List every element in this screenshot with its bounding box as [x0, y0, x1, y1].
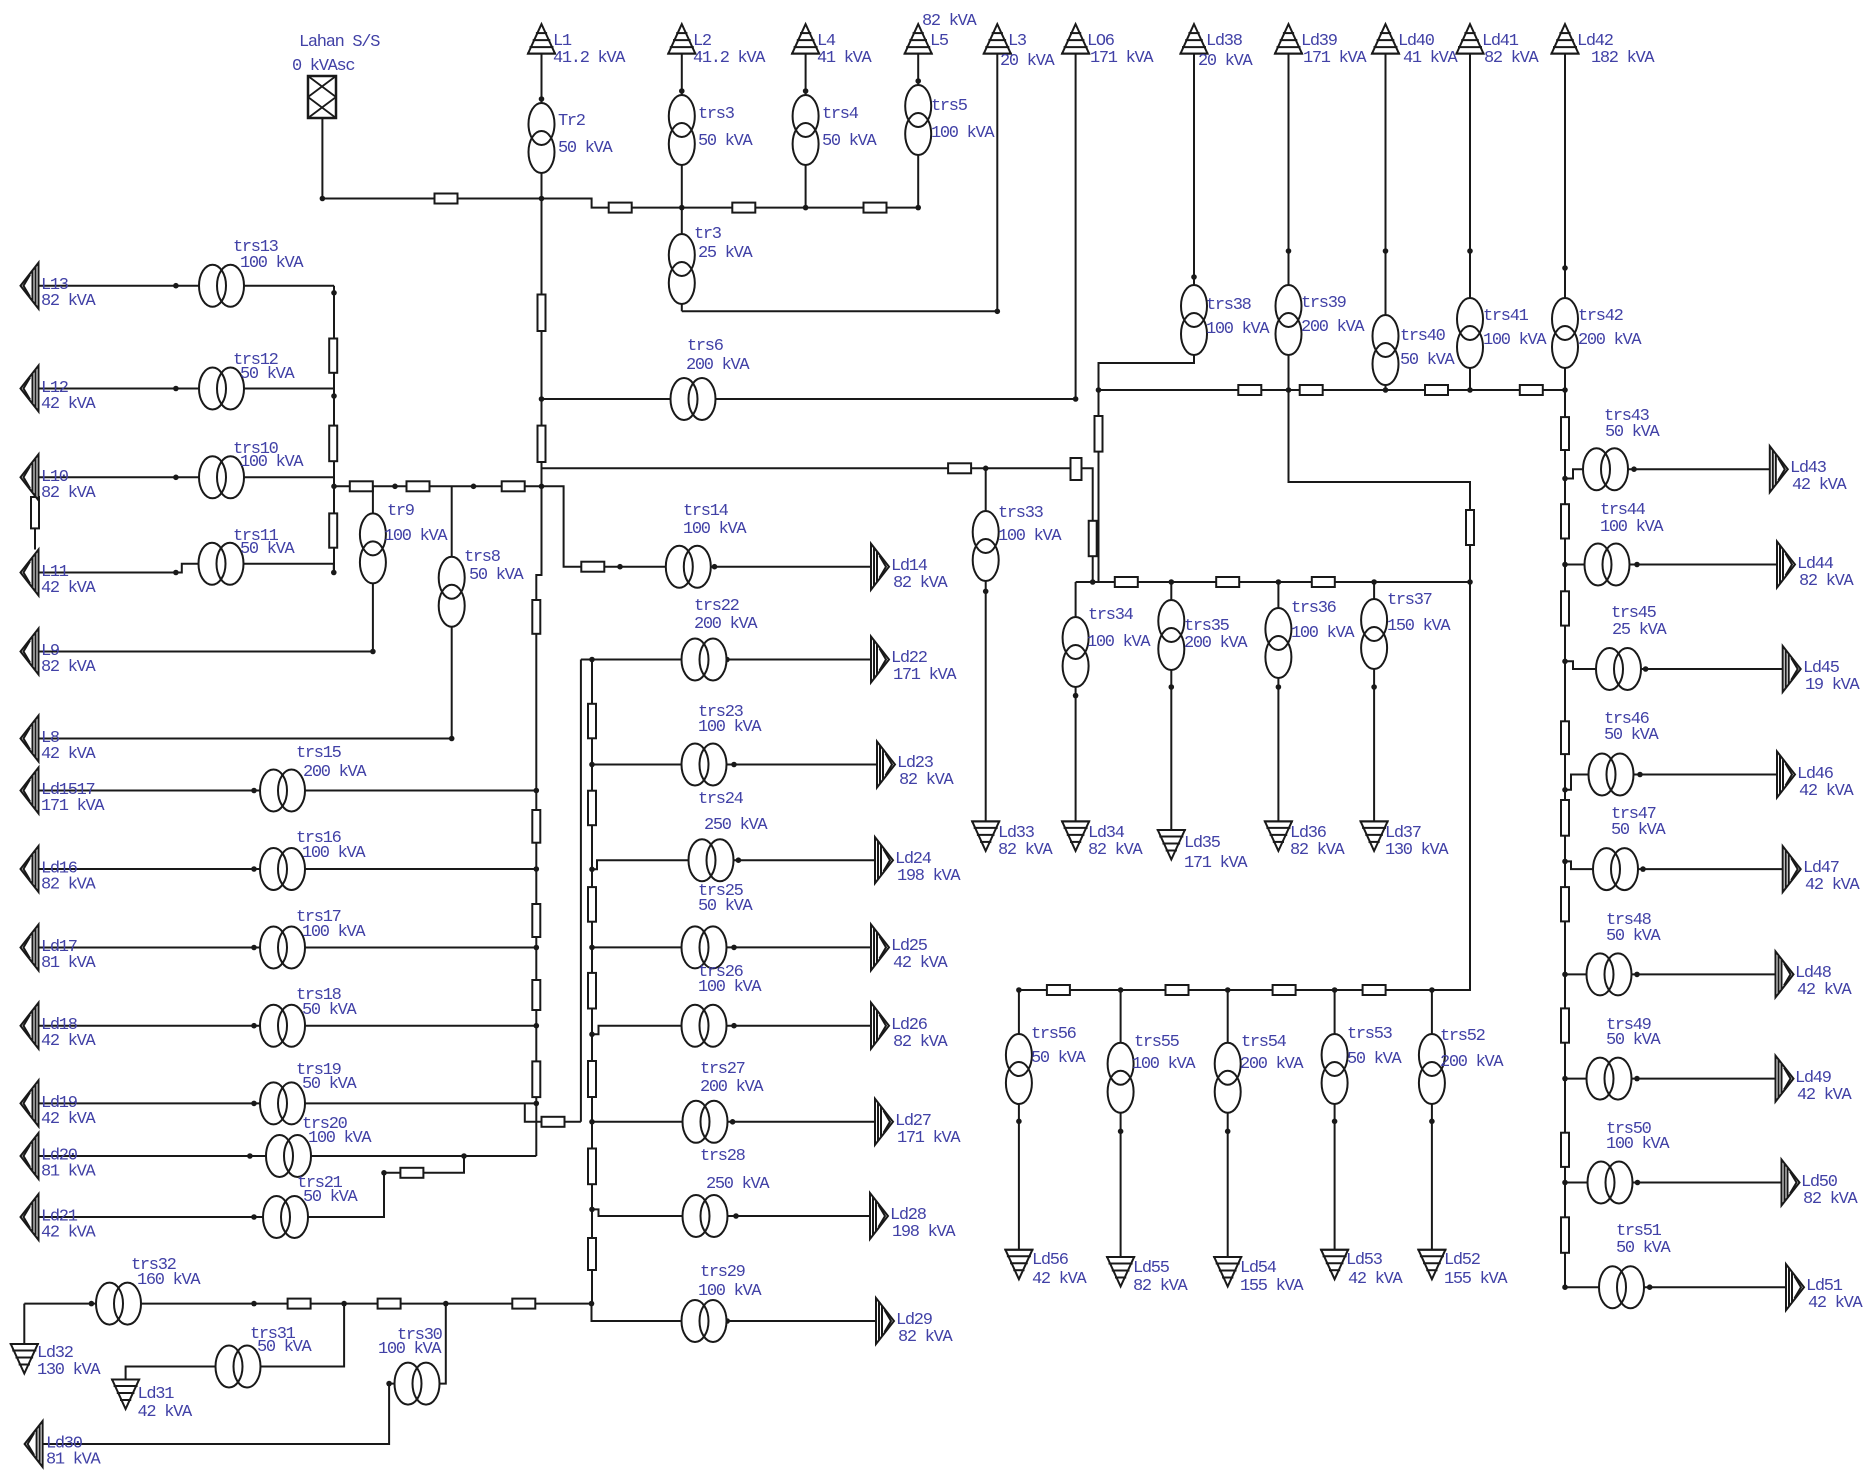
junction trs16 at trunk [534, 866, 540, 872]
cable rect right trunk b [1561, 504, 1569, 538]
junction trs14 row left [617, 564, 623, 570]
svg-text:100 kVA: 100 kVA [698, 1282, 762, 1301]
junction trs44 at trunk [1562, 562, 1568, 568]
load Ld56 [1004, 1250, 1033, 1280]
cable rect right trunk f [1561, 887, 1569, 921]
svg-text:82 kVA: 82 kVA [41, 292, 97, 311]
svg-text:50 kVA: 50 kVA [1400, 351, 1456, 370]
transformer trs49 [1587, 1058, 1632, 1100]
junction trs28 at vertical [589, 1207, 595, 1213]
junction trs14 right [712, 564, 718, 570]
svg-text:42 kVA: 42 kVA [138, 1403, 194, 1422]
svg-text:50 kVA: 50 kVA [240, 365, 296, 384]
svg-text:100 kVA: 100 kVA [931, 124, 995, 143]
svg-text:trs39: trs39 [1301, 294, 1347, 313]
junction Ld21 row [251, 1214, 257, 1220]
svg-text:171 kVA: 171 kVA [897, 1129, 961, 1148]
cable rect trs34 bus c [1312, 577, 1335, 587]
cable rect mid bus a [1238, 385, 1261, 395]
wire mid bus [1099, 389, 1566, 391]
svg-text:100 kVA: 100 kVA [302, 844, 366, 863]
transformer trs21 [263, 1196, 308, 1238]
svg-text:42 kVA: 42 kVA [1805, 876, 1861, 895]
wire Ld32 drop [23, 1304, 25, 1344]
svg-text:42 kVA: 42 kVA [41, 745, 97, 764]
load Ld53 [1320, 1250, 1349, 1280]
cable rect L10-L11 link [31, 497, 39, 528]
load Ld20 [21, 1133, 39, 1179]
junction L1 trafo top [539, 96, 545, 102]
junction trs22 right [724, 657, 730, 663]
load Ld36 [1264, 821, 1293, 851]
svg-text:50 kVA: 50 kVA [822, 132, 878, 151]
junction L2 trafo top [679, 88, 685, 94]
svg-text:trs54: trs54 [1241, 1033, 1287, 1052]
cable rect mid bus d [1520, 385, 1543, 395]
svg-text:trs56: trs56 [1031, 1025, 1077, 1044]
load LO6 [1061, 24, 1090, 53]
junction trs54 at bus52 [1225, 987, 1231, 993]
wire mid row 486 [334, 485, 542, 487]
wire L5-trs5 column [917, 54, 919, 208]
svg-text:100 kVA: 100 kVA [308, 1129, 372, 1148]
svg-text:155 kVA: 155 kVA [1444, 1270, 1508, 1289]
transformer trs29 [682, 1300, 727, 1342]
junction trs13 at trunk [331, 290, 337, 296]
svg-text:50 kVA: 50 kVA [302, 1001, 358, 1020]
junction trs43 at trunk [1562, 476, 1568, 482]
junction Tr2 at bus [539, 196, 545, 202]
cable rect top bus r1 [609, 203, 632, 213]
wire LO6 column [1075, 54, 1077, 399]
svg-text:42 kVA: 42 kVA [1792, 476, 1848, 495]
svg-text:171 kVA: 171 kVA [41, 797, 105, 816]
svg-text:50 kVA: 50 kVA [1605, 423, 1661, 442]
junction trs11 row [173, 570, 179, 576]
svg-text:50 kVA: 50 kVA [469, 566, 525, 585]
junction trs24 right [736, 857, 742, 863]
svg-text:200 kVA: 200 kVA [700, 1078, 764, 1097]
svg-text:20 kVA: 20 kVA [1198, 52, 1254, 71]
load Ld30 [25, 1421, 43, 1467]
wire trs44 row [1565, 564, 1777, 566]
junction trs5 at bus [915, 205, 921, 211]
svg-text:171 kVA: 171 kVA [893, 666, 957, 685]
svg-text:50 kVA: 50 kVA [1606, 927, 1662, 946]
wire trs46 row [1565, 775, 1777, 790]
cable rect right trunk a [1561, 417, 1569, 450]
junction trs23 at vertical [589, 762, 595, 768]
transformer trs22 [682, 639, 727, 681]
wire trs36 column [1277, 582, 1279, 821]
svg-text:42 kVA: 42 kVA [893, 954, 949, 973]
junction trs53 at bus52 [1332, 987, 1338, 993]
transformer trs27 [683, 1101, 728, 1143]
transformer trs40 [1373, 315, 1399, 385]
svg-text:42 kVA: 42 kVA [1348, 1270, 1404, 1289]
cable rect right vertical 592 d [588, 973, 596, 1009]
wire trs34 bus [1076, 581, 1470, 583]
svg-text:42 kVA: 42 kVA [41, 395, 97, 414]
load Ld54 [1213, 1257, 1242, 1287]
svg-text:Ld31: Ld31 [138, 1385, 175, 1404]
svg-text:trs41: trs41 [1483, 307, 1529, 326]
junction trs10 row [173, 475, 179, 481]
transformer trs31 [216, 1346, 261, 1388]
svg-text:100 kVA: 100 kVA [1132, 1055, 1196, 1074]
load L9 [21, 629, 39, 675]
svg-text:82 kVA: 82 kVA [998, 841, 1054, 860]
cable rect right vertical 592 c [588, 887, 596, 922]
svg-text:160 kVA: 160 kVA [137, 1271, 201, 1290]
load L13 [21, 263, 39, 309]
transformer tr9 [360, 513, 386, 583]
transformer trs10 [199, 456, 244, 498]
svg-text:100 kVA: 100 kVA [378, 1340, 442, 1359]
load Ld29 [876, 1298, 894, 1344]
cable rect trs19 link [542, 1117, 565, 1127]
junction trs50 right [1635, 1180, 1641, 1186]
wire trs32 row [24, 1303, 591, 1305]
cable rect mid bus c [1425, 385, 1448, 395]
junction Ld16 row [251, 866, 257, 872]
wire trs50 row [1565, 1182, 1782, 1184]
transformer trs47 [1593, 848, 1638, 890]
wire trs30 to Ld30 [43, 1384, 394, 1444]
svg-text:trs5: trs5 [931, 97, 968, 116]
load Ld24 [875, 837, 893, 883]
load Ld49 [1776, 1056, 1794, 1102]
transformer trs15 [260, 770, 305, 812]
junction trs46 right [1637, 772, 1643, 778]
load Ld27 [875, 1099, 893, 1145]
junction Ld17 row [251, 945, 257, 951]
junction trs33 tap [983, 466, 989, 472]
junction trs26 at vertical [589, 1032, 595, 1038]
svg-text:82 kVA: 82 kVA [1484, 49, 1540, 68]
cable rect right trunk e [1561, 800, 1569, 836]
cable rect right vertical 592 f [588, 1149, 596, 1185]
svg-text:200 kVA: 200 kVA [1301, 318, 1365, 337]
wire trs29 row [592, 1304, 877, 1321]
transformer trs55 [1108, 1043, 1134, 1113]
junction trs22 at left vertical [589, 657, 595, 663]
svg-text:50 kVA: 50 kVA [1031, 1049, 1087, 1068]
svg-text:81 kVA: 81 kVA [41, 1163, 97, 1182]
junction mid row dot b [471, 484, 477, 490]
svg-text:trs34: trs34 [1088, 606, 1134, 625]
wire Lahan S/S drop [321, 118, 323, 199]
cable rect trunk c [532, 600, 540, 634]
cable rect vert1098 [1095, 416, 1103, 452]
load Ld31 [111, 1380, 140, 1410]
junction trs34 bottom [1073, 693, 1079, 699]
load Ld42 [1551, 24, 1580, 53]
load Ld33 [971, 821, 1000, 851]
load Ld55 [1106, 1257, 1135, 1287]
junction trs38 at mid bus [1096, 387, 1102, 393]
wire Ld42-trs42 column [1564, 54, 1566, 390]
wire trs19 to left vertical link [525, 1103, 581, 1121]
svg-text:trs27: trs27 [700, 1060, 745, 1079]
svg-text:tr9: tr9 [387, 502, 415, 521]
svg-text:50 kVA: 50 kVA [698, 897, 754, 916]
junction trs4 at bus [803, 205, 809, 211]
svg-text:250 kVA: 250 kVA [706, 1175, 770, 1194]
cable rect trunk f [532, 980, 540, 1010]
wire Ld1517 row [39, 790, 537, 792]
svg-text:200 kVA: 200 kVA [303, 763, 367, 782]
svg-text:82 kVA: 82 kVA [899, 771, 955, 790]
svg-text:171 kVA: 171 kVA [1184, 854, 1248, 873]
svg-text:42 kVA: 42 kVA [41, 1110, 97, 1129]
wire L3 column [996, 54, 998, 312]
svg-text:100 kVA: 100 kVA [1600, 518, 1664, 537]
transformer trs3 [669, 95, 695, 165]
wire Ld18 row [39, 1025, 537, 1027]
load Ld32 [10, 1344, 39, 1374]
svg-text:200 kVA: 200 kVA [686, 356, 750, 375]
load Ld25 [871, 924, 889, 970]
svg-text:171 kVA: 171 kVA [1303, 49, 1367, 68]
junction trs47 right [1640, 866, 1646, 872]
transformer trs26 [682, 1005, 727, 1047]
svg-text:82 kVA: 82 kVA [1290, 841, 1346, 860]
load Ld14 [871, 544, 889, 590]
load Ld52 [1417, 1250, 1446, 1280]
load Ld38 [1180, 24, 1209, 53]
svg-text:82 kVA: 82 kVA [1133, 1277, 1189, 1296]
svg-text:82 kVA: 82 kVA [893, 574, 949, 593]
cable rect right trunk h [1561, 1133, 1569, 1167]
load Ld43 [1770, 446, 1788, 492]
transformer trs19 [260, 1082, 305, 1124]
cable rect trs34 bus a [1115, 577, 1138, 587]
junction trs24 at vertical [589, 867, 595, 873]
junction trs37 at bus [1371, 579, 1377, 585]
wire trs11 row [39, 564, 334, 573]
wire Ld16 row [39, 868, 537, 870]
wire L9 row [39, 651, 373, 653]
wire trs24 row [592, 860, 875, 869]
wire trs30 riser [440, 1304, 446, 1384]
wire right trunk [1564, 390, 1566, 1287]
wire trs37 column [1373, 582, 1375, 821]
cable rect trs32 row b [378, 1299, 401, 1309]
junction trs15 at trunk [534, 788, 540, 794]
svg-text:42 kVA: 42 kVA [1797, 981, 1853, 1000]
svg-text:82 kVA: 82 kVA [1799, 572, 1855, 591]
load L10 [21, 454, 39, 500]
junction trs6 at LO6 [1073, 396, 1079, 402]
wire Ld39-trs39 column [1288, 54, 1290, 390]
cable rect top bus left [435, 194, 458, 204]
svg-text:81 kVA: 81 kVA [41, 954, 97, 973]
junction trs12 row [173, 386, 179, 392]
junction trs48 right [1634, 972, 1640, 978]
load Ld26 [871, 1003, 889, 1049]
junction trs49 right [1634, 1076, 1640, 1082]
junction trs29 at vertical [589, 1301, 595, 1307]
svg-text:81 kVA: 81 kVA [46, 1451, 102, 1470]
junction feeder at trs34 bus [1090, 579, 1096, 585]
wire L2-trs3-tr3 column [681, 54, 683, 312]
cable rect mid row a [350, 481, 373, 491]
wire trs34 column [1075, 582, 1077, 821]
svg-text:182 kVA: 182 kVA [1591, 49, 1655, 68]
svg-text:100 kVA: 100 kVA [698, 718, 762, 737]
cable rect right trunk g [1561, 1008, 1569, 1042]
junction trs54 bottom [1225, 1129, 1231, 1135]
junction trs52 bottom [1429, 1119, 1435, 1125]
svg-text:82 kVA: 82 kVA [893, 1033, 949, 1052]
junction Ld40 column [1383, 248, 1389, 254]
load Ld1517 [21, 768, 39, 814]
wire trs56 column [1018, 990, 1020, 1250]
transformer trs30 [395, 1363, 440, 1405]
svg-text:100 kVA: 100 kVA [1291, 624, 1355, 643]
transformer trs16 [260, 848, 305, 890]
transformer trs28 [683, 1195, 728, 1237]
junction trs56 at bus52 [1016, 987, 1022, 993]
svg-text:tr3: tr3 [694, 225, 722, 244]
cable rect trunk e [532, 904, 540, 937]
junction trs45 right [1643, 666, 1649, 672]
load Ld48 [1776, 951, 1794, 997]
svg-text:130 kVA: 130 kVA [1385, 841, 1449, 860]
svg-text:82 kVA: 82 kVA [1088, 841, 1144, 860]
svg-text:50 kVA: 50 kVA [302, 1075, 358, 1094]
transformer trs32 [96, 1283, 141, 1325]
svg-text:Ld35: Ld35 [1184, 834, 1221, 853]
svg-text:100 kVA: 100 kVA [1087, 633, 1151, 652]
junction Ld41 column [1467, 248, 1473, 254]
load L4 [791, 24, 820, 53]
wire right vertical 592 [591, 660, 593, 1304]
load Ld40 [1371, 24, 1400, 53]
cable rect trunk g [532, 1061, 540, 1097]
junction trs30 left [386, 1381, 392, 1387]
load L3 [983, 24, 1012, 53]
svg-text:42 kVA: 42 kVA [41, 579, 97, 598]
svg-text:41 kVA: 41 kVA [1403, 49, 1459, 68]
transformer trs43 [1583, 448, 1628, 490]
junction Ld20 row [247, 1153, 253, 1159]
junction trs21 riser corner [381, 1170, 387, 1176]
svg-text:82 kVA: 82 kVA [1803, 1190, 1859, 1209]
cable rect trunk d [532, 810, 540, 843]
utility grid Lahan S/S box [308, 76, 336, 118]
junction trs13 row [173, 283, 179, 289]
junction trs53 bottom [1332, 1119, 1338, 1125]
junction trs48 at trunk [1562, 972, 1568, 978]
transformer trs4 [793, 95, 819, 165]
wire L4-trs4 column [805, 54, 807, 208]
svg-text:100 kVA: 100 kVA [683, 520, 747, 539]
svg-text:50 kVA: 50 kVA [1611, 821, 1667, 840]
junction bus34 right end [1467, 579, 1473, 585]
transformer trs51 [1599, 1266, 1644, 1308]
cable rect mid row b [407, 481, 430, 491]
transformer trs14 [666, 546, 711, 588]
junction trs21 riser at trs20 row [461, 1153, 467, 1159]
wire trs10 row [39, 476, 335, 478]
svg-text:200 kVA: 200 kVA [1240, 1055, 1304, 1074]
load Ld50 [1782, 1160, 1800, 1206]
cable rect trs14 row [581, 562, 604, 572]
transformer trs18 [260, 1005, 305, 1047]
cable rect mid bus b [1300, 385, 1323, 395]
load Ld28 [870, 1193, 888, 1239]
wire Ld19 row [39, 1102, 537, 1104]
junction trs17 at trunk [534, 945, 540, 951]
svg-text:25 kVA: 25 kVA [698, 244, 754, 263]
svg-text:100 kVA: 100 kVA [240, 254, 304, 273]
load L11 [21, 550, 39, 596]
svg-text:198 kVA: 198 kVA [892, 1223, 956, 1242]
svg-text:200 kVA: 200 kVA [694, 615, 758, 634]
cable rect top bus r3 [864, 203, 887, 213]
svg-text:150 kVA: 150 kVA [1387, 617, 1451, 636]
svg-text:200 kVA: 200 kVA [1440, 1053, 1504, 1072]
load Ld41 [1456, 24, 1485, 53]
wire Ld41-trs41 column [1469, 54, 1471, 390]
load L8 [21, 716, 39, 762]
junction trs41 at mid bus [1467, 387, 1473, 393]
svg-text:42 kVA: 42 kVA [41, 1224, 97, 1243]
junction trs12 at trunk [331, 393, 337, 399]
junction trs39 at mid bus [1286, 387, 1292, 393]
junction trs32 right a [251, 1301, 257, 1307]
transformer trs37 [1361, 599, 1387, 669]
junction Ld18 row [251, 1023, 257, 1029]
transformer trs38 [1181, 285, 1207, 355]
svg-text:100 kVA: 100 kVA [1483, 331, 1547, 350]
wire trs8 column [451, 486, 453, 738]
junction trs40 at mid bus [1383, 387, 1389, 393]
junction trs36 bottom [1276, 684, 1282, 690]
junction trs32 left [89, 1301, 95, 1307]
load Ld21 [21, 1194, 39, 1240]
wire trs31 riser and row [126, 1304, 345, 1380]
junction trs43 right [1631, 466, 1637, 472]
wire trs6 row [542, 398, 1076, 400]
svg-text:100 kVA: 100 kVA [698, 978, 762, 997]
junction tr9 bottom at L9 [370, 649, 376, 655]
cable rect top bus r2 [732, 203, 755, 213]
svg-text:50 kVA: 50 kVA [1606, 1031, 1662, 1050]
transformer trs42 [1552, 298, 1578, 368]
svg-text:100 kVA: 100 kVA [1606, 1135, 1670, 1154]
svg-text:trs55: trs55 [1134, 1033, 1180, 1052]
load L5 [904, 24, 933, 53]
junction trs44 right [1634, 562, 1640, 568]
junction trs33 bottom [983, 589, 989, 595]
load Ld34 [1061, 821, 1090, 851]
junction trs6 at trunk [539, 396, 545, 402]
cable rect square on long horizontal [1071, 458, 1082, 480]
cable rect mid row c [502, 481, 525, 491]
wire trs35 column [1170, 582, 1172, 830]
cable rect trs32 row c [512, 1299, 535, 1309]
transformer trs13 [199, 265, 244, 307]
svg-text:Ld54: Ld54 [1240, 1259, 1277, 1278]
transformer trs20 [266, 1135, 311, 1177]
svg-text:200 kVA: 200 kVA [1184, 634, 1248, 653]
wire Tr2 trunk upper [541, 199, 543, 487]
wire trs22 row [581, 659, 871, 661]
wire Ld17 row [39, 947, 537, 949]
